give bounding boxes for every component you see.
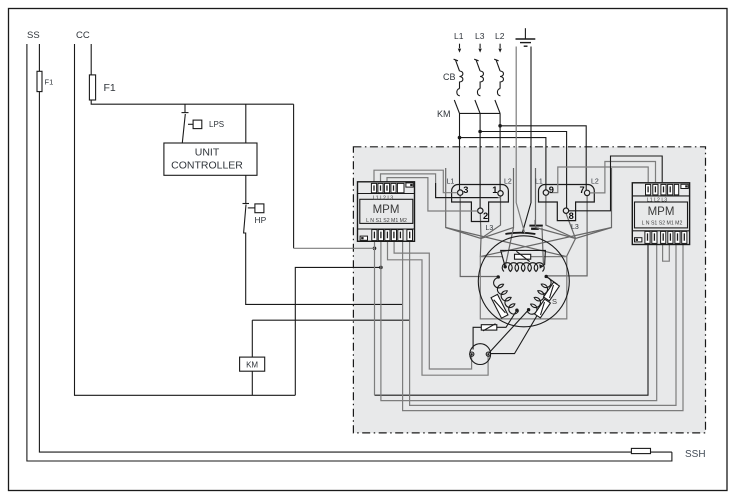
svg-text:S: S (552, 297, 557, 306)
svg-text:3: 3 (463, 185, 468, 195)
svg-text:UNIT: UNIT (195, 147, 220, 159)
svg-text:L2: L2 (504, 179, 512, 186)
svg-text:L1: L1 (535, 179, 543, 186)
svg-text:9: 9 (549, 185, 554, 195)
svg-text:L1 L2 L3: L1 L2 L3 (647, 197, 667, 203)
svg-text:LPS: LPS (209, 120, 224, 129)
svg-text:L3: L3 (475, 31, 485, 41)
svg-text:CB: CB (443, 72, 456, 82)
svg-text:SS: SS (27, 30, 40, 41)
svg-text:CONTROLLER: CONTROLLER (171, 160, 243, 172)
svg-text:SSH: SSH (685, 449, 706, 460)
svg-text:L1 L2 L3: L1 L2 L3 (373, 196, 393, 202)
svg-text:L2: L2 (591, 179, 599, 186)
svg-text:MPM: MPM (373, 204, 400, 216)
svg-text:L1: L1 (447, 179, 455, 186)
svg-text:1: 1 (492, 185, 497, 195)
svg-text:KM: KM (437, 109, 451, 119)
svg-text:CC: CC (76, 30, 90, 41)
svg-text:L3: L3 (571, 224, 579, 231)
svg-text:7: 7 (580, 185, 585, 195)
svg-text:L N S1 S2 M1 M2: L N S1 S2 M1 M2 (366, 218, 407, 224)
svg-text:MPM: MPM (648, 206, 675, 218)
svg-text:L3: L3 (486, 225, 494, 232)
svg-text:F1: F1 (45, 78, 54, 87)
svg-text:8: 8 (569, 211, 574, 221)
svg-text:L N S1 S2 M1 M2: L N S1 S2 M1 M2 (642, 221, 683, 227)
svg-text:L2: L2 (495, 31, 505, 41)
svg-text:HP: HP (255, 215, 267, 225)
svg-text:L1: L1 (454, 31, 464, 41)
svg-text:KM: KM (246, 361, 258, 370)
svg-text:2: 2 (483, 211, 488, 221)
svg-text:F1: F1 (104, 82, 116, 94)
